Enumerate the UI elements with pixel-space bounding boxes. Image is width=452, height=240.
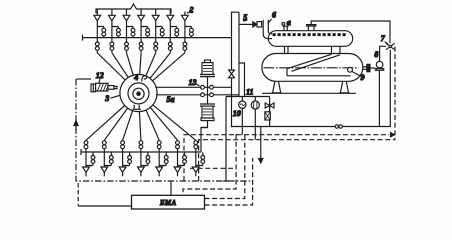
- bottom feeder unit 6 inlet check dots: [176, 140, 180, 152]
- svg-text:13: 13: [189, 78, 197, 87]
- wire from distributor to bottom feeder 6: [150, 107, 177, 140]
- bottom feeder unit 3 outlet arrow: [119, 167, 126, 176]
- bottom feeder unit 1 outlet arrow: [83, 167, 90, 176]
- leader for label 13: [196, 84, 200, 86]
- wire from distributor to bottom feeder 5: [146, 110, 159, 140]
- feed line 5 with arrow: [239, 23, 253, 25]
- bottom feeder unit 6 metering valve body: [178, 152, 187, 167]
- top feeder unit 6 inlet arrow: [167, 10, 174, 27]
- svg-text:6: 6: [272, 10, 276, 19]
- ball fittings on upper delivery pipe: [201, 85, 214, 89]
- flow arrow up on boundary: [74, 121, 78, 132]
- bottom feeder unit 7 outlet arrow: [192, 167, 199, 176]
- union fitting on return line: [335, 125, 342, 128]
- svg-text:11: 11: [246, 87, 254, 96]
- filter drop line: [254, 109, 256, 140]
- wire from top feeder 2 to distributor: [112, 53, 128, 78]
- dashed mid horizontal stub: [190, 167, 236, 169]
- top feeder unit 4 inlet arrow: [138, 10, 145, 27]
- svg-text:10: 10: [233, 109, 241, 118]
- valve 7 cross symbol: [386, 43, 395, 49]
- leader under label 5: [243, 20, 248, 21]
- distributor shaft dot: [137, 92, 140, 95]
- bottom manifold line: [81, 149, 201, 155]
- drop stub 1 heater to tank: [285, 46, 289, 53]
- distributor bottom key notch: [133, 105, 142, 110]
- bottom feeder unit 4 outlet arrow: [138, 167, 145, 176]
- wire from distributor to bottom feeder 4: [139, 112, 141, 141]
- lower control cylinder of 13: [200, 104, 215, 121]
- top feeder unit 4 outlet check valve dots: [139, 38, 143, 53]
- ball fittings on lower delivery pipe: [201, 93, 214, 97]
- solid riser from return line to pump 8: [378, 71, 380, 127]
- dashed line from valve 7 down: [394, 47, 396, 140]
- leader for label 6: [268, 19, 272, 24]
- bottom feeder unit 5 outlet arrow: [156, 167, 163, 176]
- bottom feeder unit 2 outlet arrow: [101, 167, 108, 176]
- pressure gauge 10: [239, 97, 246, 109]
- plunger pump 12 end cap: [91, 84, 96, 92]
- bottom feeder unit 5 metering valve body: [159, 152, 168, 167]
- float switch 9: [348, 67, 353, 72]
- drop stub 2 heater to tank: [332, 46, 341, 55]
- top feeder unit 5 outlet check valve dots: [154, 38, 158, 53]
- inclined baffle plates in tank: [287, 54, 351, 76]
- top feeder unit 1 metering valve body: [97, 27, 105, 38]
- bottom feeder unit 4 inlet check dots: [139, 140, 143, 152]
- dashed drop from boundary to BMA line: [77, 183, 79, 206]
- upper delivery pipe from distributor: [155, 86, 231, 88]
- bottom feeder unit 2 metering valve body: [104, 152, 113, 167]
- top feeder unit 7 metering valve body: [185, 27, 193, 38]
- dashed control line lower with arrow: [199, 140, 395, 181]
- leader to label 2: [187, 9, 192, 14]
- wire from top feeder 1 to distributor: [97, 53, 125, 80]
- gauge 10 drop line: [241, 108, 243, 134]
- wire from distributor to bottom feeder 3: [123, 111, 133, 141]
- pipe from flange to pump 8: [370, 67, 375, 69]
- bottom feeder unit 3 metering valve body: [123, 152, 132, 167]
- dashed drop line to BMA: [183, 134, 236, 195]
- top feeder unit 1 outlet check valve dots: [95, 38, 99, 53]
- solenoid box with cross: [265, 112, 270, 120]
- dashed loop right of BMA upper: [205, 134, 245, 199]
- floor line under tank: [262, 92, 356, 94]
- svg-text:a: a: [287, 18, 291, 27]
- perforated sparger band inside heater: [273, 33, 346, 36]
- wire from distributor to bottom feeder 2: [104, 108, 127, 140]
- wire from top feeder 7 to distributor: [153, 53, 185, 81]
- top feeder unit 7 outlet check valve dots: [183, 38, 187, 53]
- bottom feeder unit 3 inlet check dots: [121, 140, 125, 152]
- distributor inner bore: [133, 88, 144, 99]
- stub from boundary into BMA: [170, 181, 172, 195]
- top feeder unit 3 inlet arrow: [123, 10, 130, 27]
- drain line from distributor block down to boundary: [223, 97, 229, 182]
- top feeder unit 6 metering valve body: [170, 27, 178, 38]
- supply line into BMA: [78, 205, 131, 207]
- bottom feeder unit 7 inlet check dots: [194, 140, 198, 152]
- top feeder unit 3 metering valve body: [127, 27, 135, 38]
- wire from top feeder 3 to distributor: [127, 53, 134, 75]
- riser pipe A from top manifold: [232, 12, 240, 96]
- heater vessel 6 body: [268, 31, 352, 47]
- top manifold line: [83, 35, 232, 41]
- svg-text:12: 12: [96, 71, 104, 80]
- top feeder unit 2 metering valve body: [112, 27, 120, 38]
- lower delivery pipe from distributor: [156, 94, 239, 96]
- svg-text:БМА: БМА: [159, 199, 177, 207]
- svg-text:4: 4: [133, 73, 138, 82]
- inlet elbow pipe 6: [263, 20, 272, 39]
- inlet fitting on heater: [257, 22, 262, 27]
- leader for label 7: [385, 42, 389, 44]
- bottom feeder unit 6 outlet arrow: [174, 167, 181, 176]
- top feeder unit 2 outlet check valve dots: [110, 38, 114, 53]
- svg-text:3: 3: [104, 94, 109, 103]
- wire from distributor to bottom feeder 1: [86, 106, 125, 141]
- top feeder unit 7 inlet arrow: [182, 12, 189, 27]
- svg-text:2: 2: [189, 6, 194, 15]
- tank right leg: [340, 81, 350, 93]
- top feeder unit 5 metering valve body: [156, 27, 164, 38]
- dash-dot machine boundary left and bottom: [76, 79, 252, 181]
- drop from header with control valve: [269, 97, 271, 127]
- shut-off valve on riser A: [229, 70, 235, 78]
- distributor ring: [128, 83, 149, 104]
- top feeder unit 6 outlet check valve dots: [168, 38, 172, 53]
- svg-text:5a: 5a: [167, 95, 175, 104]
- top feeder unit 1 inlet arrow: [94, 10, 101, 27]
- riser from bottom manifold to assembly 13: [201, 128, 208, 153]
- flow arrow down between lines: [259, 127, 263, 164]
- oil tank body: [262, 54, 363, 82]
- dashed loop right of BMA lower: [205, 158, 253, 205]
- bypass loop on riser B: [239, 63, 245, 97]
- bottom feeder unit 1 metering valve body: [86, 152, 95, 167]
- solid return line to tank valve: [232, 50, 391, 127]
- bottom feeder unit 1 inlet check dots: [84, 140, 88, 152]
- filter instrument on header: [251, 97, 259, 110]
- outlet flange block: [367, 64, 370, 71]
- wire from distributor to bottom feeder 7: [153, 105, 196, 141]
- svg-text:9: 9: [361, 73, 365, 82]
- bottom feeder unit 4 metering valve body: [141, 152, 150, 167]
- plunger pump 12 tip: [114, 86, 117, 88]
- instrument header line 11: [226, 96, 270, 98]
- riser pipe B: [238, 12, 240, 96]
- rotary distributor 5a outer body: [120, 74, 157, 111]
- svg-text:8: 8: [374, 50, 378, 59]
- distributor top ratchet mark 4: [142, 76, 147, 82]
- oil level line: [263, 67, 358, 69]
- plunger pump 12 body with hatching: [96, 83, 108, 91]
- suction pipe from boundary to pump 12: [77, 78, 92, 80]
- brace over top feeder group: [96, 4, 171, 14]
- bowtie valve on drop: [265, 103, 274, 108]
- leader for label 3: [111, 95, 121, 98]
- leader for label 9: [352, 72, 360, 76]
- top feeder unit 2 inlet arrow: [109, 10, 116, 27]
- leader for label 12: [99, 79, 100, 83]
- plunger pump 12 rod: [108, 86, 114, 90]
- bottom feeder unit 2 inlet check dots: [102, 140, 106, 152]
- drain link from lower cylinder of 13: [201, 121, 208, 128]
- dashed control line upper: [184, 135, 389, 181]
- bottom feeder unit 7 metering valve body: [196, 152, 205, 167]
- top feeder unit 3 outlet check valve dots: [125, 38, 129, 53]
- riser from pump 8 to valve 7: [380, 46, 386, 61]
- tank right outlet nozzle: [363, 67, 367, 69]
- wire from top feeder 6 to distributor: [150, 53, 170, 79]
- transfer pump 8: [375, 61, 385, 70]
- outlet nozzle on heater to valve 7: [306, 21, 390, 43]
- bottom feeder unit 5 inlet check dots: [157, 140, 161, 152]
- BMA unit box: [132, 195, 205, 209]
- vertical stem through assembly 13: [207, 77, 209, 105]
- vent fitting a on heater: [282, 18, 291, 31]
- upper control cylinder of 13: [200, 60, 215, 77]
- wire from top feeder 5 to distributor: [146, 53, 156, 76]
- top feeder unit 5 inlet arrow: [152, 10, 159, 27]
- wire from top feeder 4 to distributor: [140, 53, 141, 75]
- tank left leg: [272, 81, 282, 93]
- top feeder unit 4 metering valve body: [141, 27, 149, 38]
